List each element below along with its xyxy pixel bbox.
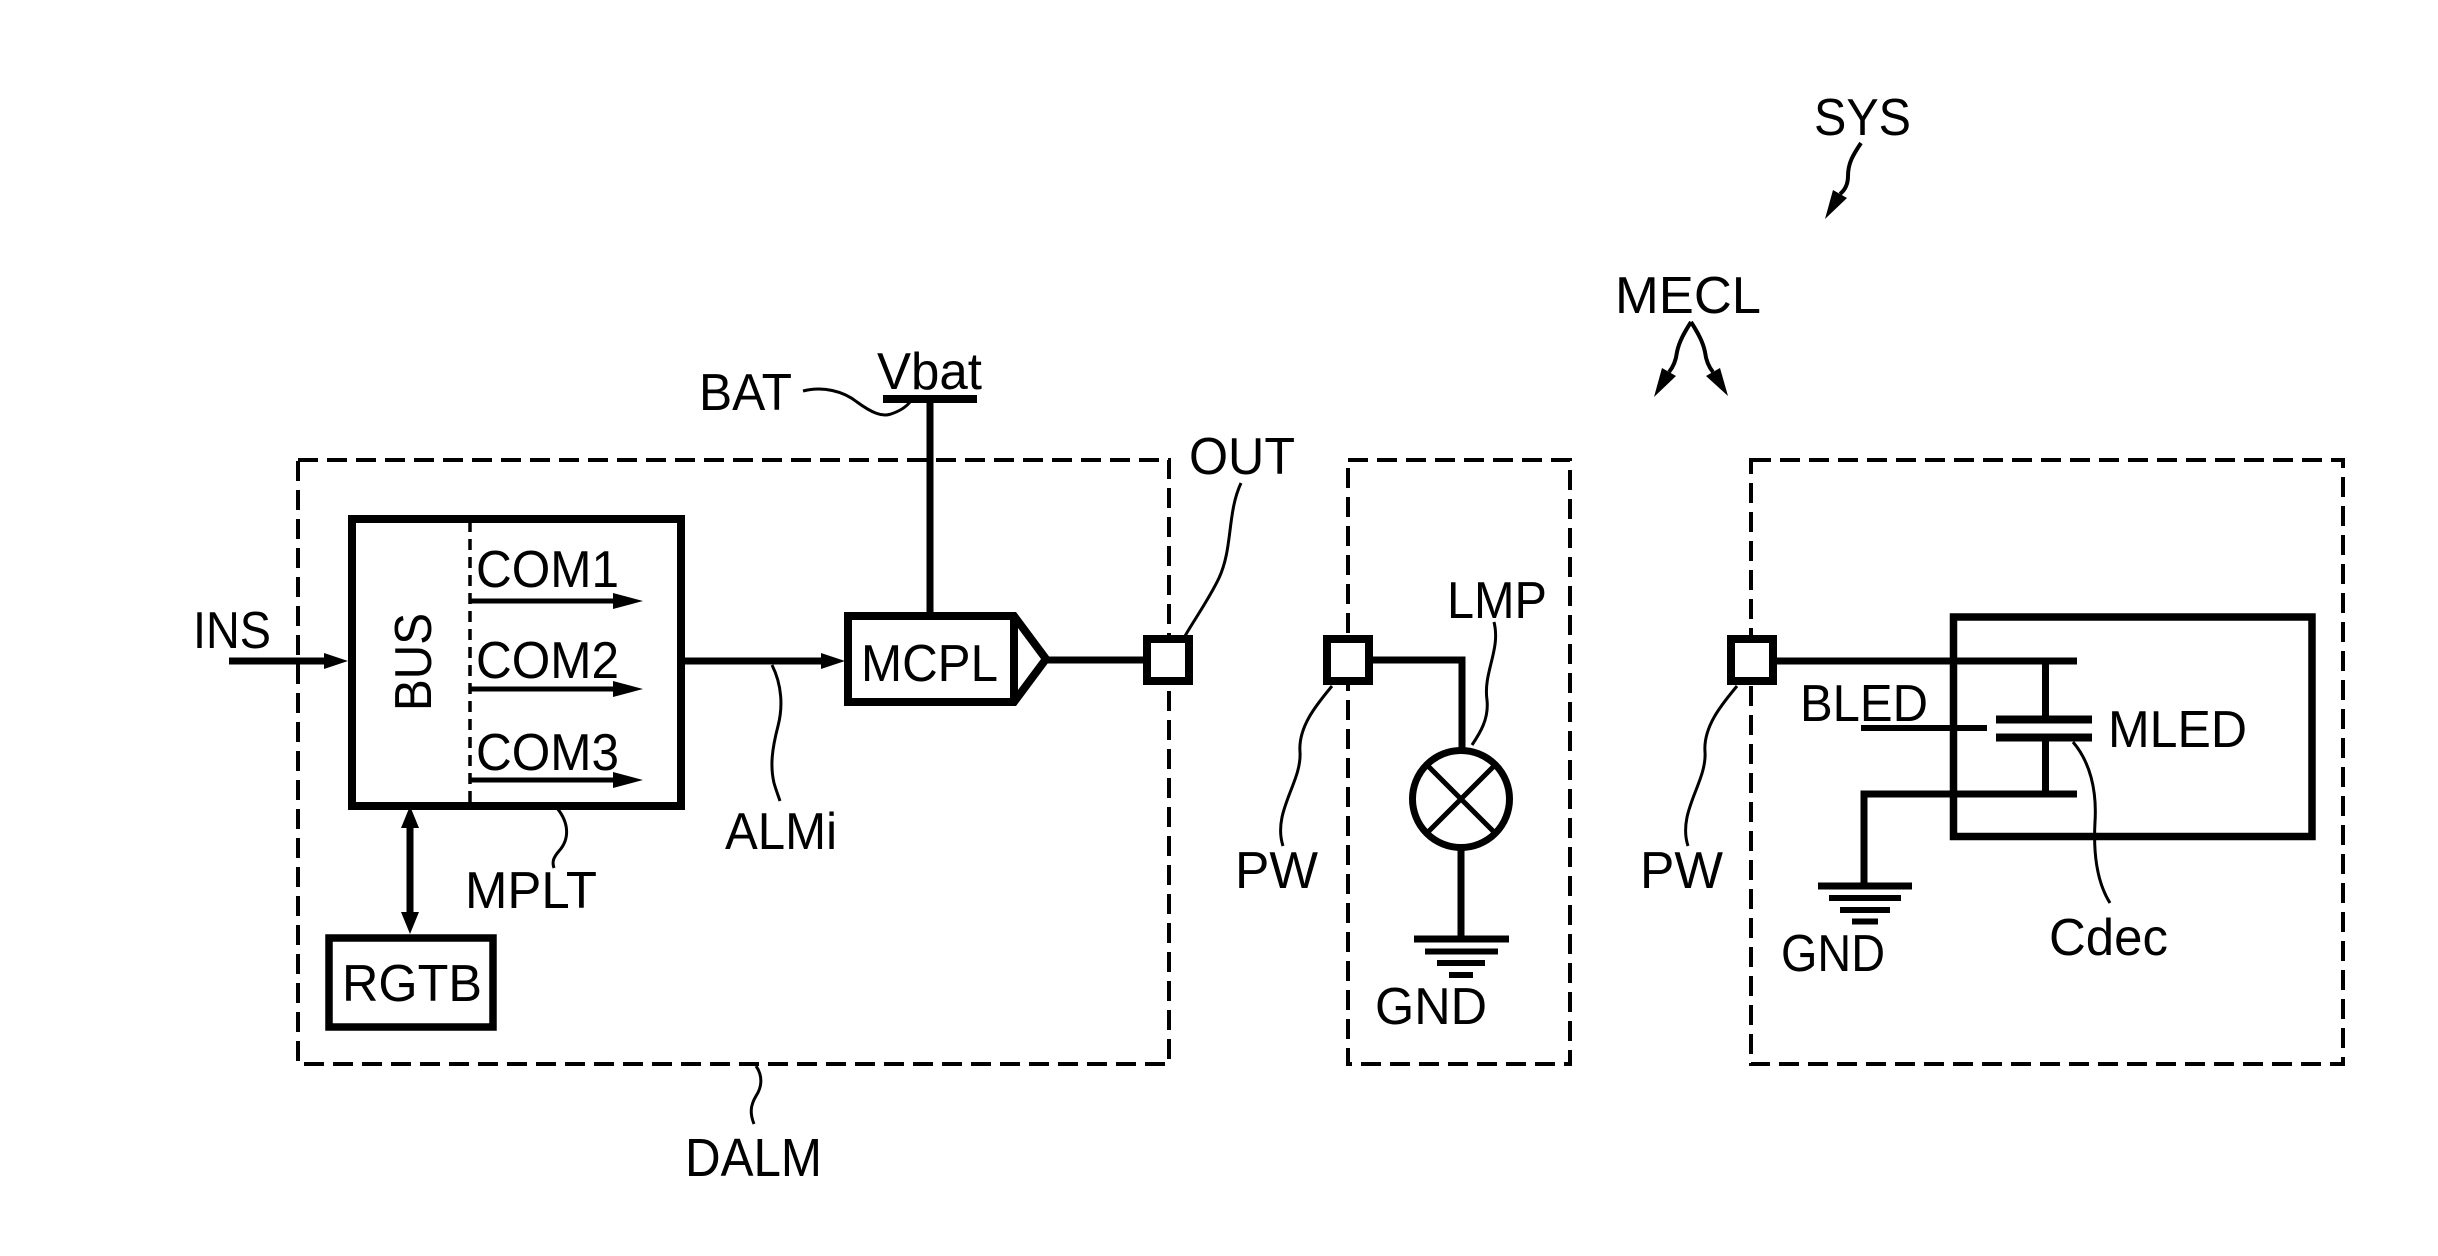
wire PW to lamp xyxy=(1373,660,1462,748)
leader squiggle ALMi xyxy=(772,665,781,801)
wire COM3 arrow xyxy=(471,772,643,788)
svg-text:RGTB: RGTB xyxy=(342,955,482,1013)
wire COM1 arrow xyxy=(471,593,643,609)
svg-text:INS: INS xyxy=(193,602,271,660)
terminal PW square (lamp module) xyxy=(1327,639,1369,681)
block BUS xyxy=(352,519,681,806)
block MLED xyxy=(1954,617,2313,837)
wire COM2 arrow xyxy=(471,681,643,697)
svg-text:SYS: SYS xyxy=(1814,89,1911,147)
svg-text:MLED: MLED xyxy=(2108,701,2247,759)
leader squiggle MPLT xyxy=(553,808,567,868)
block MCPL driver pentagon xyxy=(848,616,1046,702)
svg-text:GND: GND xyxy=(1375,978,1487,1036)
module PW/LMP dashed box xyxy=(1348,460,1570,1064)
svg-text:MCPL: MCPL xyxy=(861,635,998,693)
svg-text:BLED: BLED xyxy=(1800,675,1928,733)
wire Cdec bottom to ground xyxy=(1864,794,2077,883)
pointer arrows MECL xyxy=(1654,322,1728,397)
wire Vbat to MCPL xyxy=(927,403,934,613)
capacitor Cdec xyxy=(1996,664,2092,794)
leader squiggle DALM xyxy=(751,1066,761,1124)
svg-text:COM3: COM3 xyxy=(476,724,619,782)
leader squiggle LMP xyxy=(1472,622,1496,745)
svg-text:COM2: COM2 xyxy=(476,632,619,690)
svg-text:MPLT: MPLT xyxy=(465,862,597,920)
leader squiggle Cdec xyxy=(2073,742,2110,903)
wire lamp to ground xyxy=(1458,848,1465,936)
wire MCPL to OUT terminal xyxy=(1046,657,1145,664)
lamp LMP xyxy=(1413,751,1510,848)
leader squiggle OUT xyxy=(1185,483,1241,636)
pointer arrow SYS xyxy=(1825,143,1861,219)
svg-text:PW: PW xyxy=(1640,842,1723,900)
wire BUS-RGTB double arrow xyxy=(401,806,419,934)
ground GND (lamp module) xyxy=(1414,939,1509,975)
svg-text:BUS: BUS xyxy=(385,613,443,711)
svg-text:Cdec: Cdec xyxy=(2049,909,2168,967)
svg-text:DALM: DALM xyxy=(685,1128,822,1188)
leader squiggle PW (MLED module) xyxy=(1686,686,1737,846)
svg-text:PW: PW xyxy=(1235,842,1318,900)
module PW/MLED dashed box xyxy=(1751,460,2343,1064)
wire BUS to MCPL with arrow xyxy=(681,653,845,669)
svg-text:LMP: LMP xyxy=(1447,572,1547,630)
terminal PW square (MLED module) xyxy=(1731,639,1773,681)
wire PW to MLED/Cdec xyxy=(1777,658,2077,665)
svg-text:OUT: OUT xyxy=(1189,428,1295,486)
terminal OUT square xyxy=(1147,639,1189,681)
module DALM dashed box xyxy=(298,460,1169,1064)
leader squiggle PW (lamp module) xyxy=(1281,686,1332,846)
ground GND (MLED module) xyxy=(1818,886,1912,922)
svg-text:MECL: MECL xyxy=(1615,267,1761,325)
svg-text:BAT: BAT xyxy=(699,364,792,422)
leader squiggle BAT xyxy=(803,389,910,415)
BUS internal dashed partition xyxy=(468,521,472,804)
wire INS input arrow xyxy=(229,653,348,669)
svg-text:ALMi: ALMi xyxy=(725,803,837,861)
block RGTB xyxy=(329,938,493,1027)
wire BLED underline stub xyxy=(1861,725,1987,731)
supply rail Vbat bar xyxy=(883,395,977,403)
svg-text:COM1: COM1 xyxy=(476,541,619,599)
svg-text:Vbat: Vbat xyxy=(877,343,983,401)
svg-text:GND: GND xyxy=(1781,925,1885,983)
